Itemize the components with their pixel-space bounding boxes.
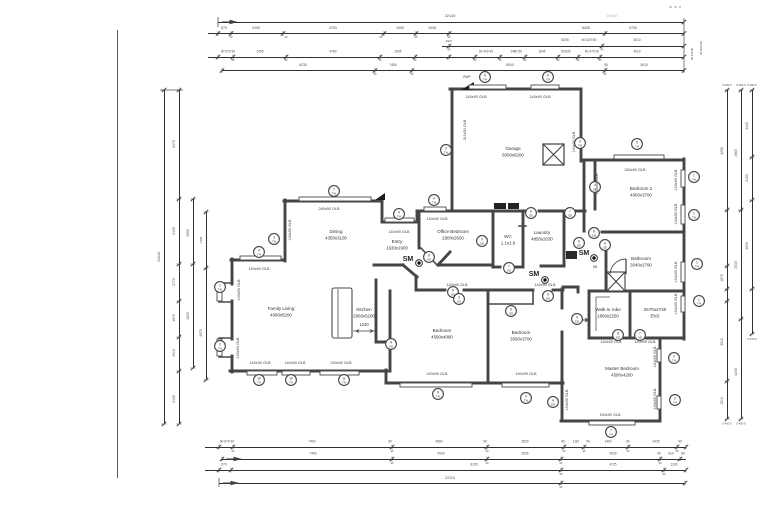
svg-text:4590x4260: 4590x4260	[611, 373, 633, 378]
wall dining top	[284, 200, 382, 203]
tick row5	[682, 68, 686, 73]
tick R3	[750, 198, 755, 202]
bay window 2 box	[219, 338, 232, 357]
svg-text:4010: 4010	[633, 50, 640, 54]
rwp triangle porch	[375, 193, 385, 200]
wall hall south of laundry	[563, 286, 578, 289]
tick row4	[576, 55, 580, 60]
room label Walk-in robe	[595, 307, 621, 319]
svg-text:5 490 5: 5 490 5	[736, 83, 746, 87]
tag circle hall door	[574, 238, 585, 249]
wall right outer (east)	[683, 159, 686, 339]
svg-text:TH: TH	[673, 400, 677, 404]
wall entry jamb	[415, 276, 418, 290]
svg-text:140x90 GLB: 140x90 GLB	[674, 293, 678, 315]
tick B3	[684, 468, 688, 473]
wall hall south seg3	[553, 289, 563, 292]
svg-text:Walk-in robe: Walk-in robe	[595, 307, 621, 312]
svg-text:7450: 7450	[389, 63, 397, 67]
svg-text:4530: 4530	[437, 452, 444, 456]
tag circle garage right	[575, 138, 586, 149]
svg-text:140x90 GLB: 140x90 GLB	[288, 219, 292, 241]
svg-text:140x90 GLB: 140x90 GLB	[388, 230, 410, 234]
tag circle bathroom hall door	[589, 228, 600, 239]
svg-text:TH: TH	[546, 77, 550, 81]
svg-text:4060: 4060	[734, 149, 738, 157]
tick B2	[559, 457, 563, 462]
wall office left	[418, 212, 421, 248]
svg-text:TH: TH	[289, 380, 293, 384]
page fold line	[117, 30, 119, 478]
window sill east wall 3	[681, 262, 685, 282]
wall laundry top seg2	[539, 210, 562, 213]
svg-text:6000x6200: 6000x6200	[502, 153, 524, 158]
dim line right R3	[752, 90, 754, 334]
svg-text:Entry: Entry	[392, 239, 403, 244]
svg-text:RWP: RWP	[463, 75, 470, 79]
svg-text:140x90 GLB: 140x90 GLB	[236, 337, 240, 359]
tick row4	[598, 55, 602, 60]
svg-text:1845: 1845	[538, 50, 545, 54]
svg-text:TH: TH	[257, 380, 261, 384]
dim end bar	[217, 17, 219, 27]
tick B2	[220, 457, 224, 462]
svg-text:TH: TH	[397, 214, 401, 218]
tick V3	[191, 262, 196, 266]
svg-text:Bathroom: Bathroom	[631, 256, 651, 261]
garage door cupboard 2	[508, 203, 519, 209]
room label Bedroom	[431, 328, 453, 340]
tag circle garage top window 2	[543, 72, 554, 83]
tick	[162, 88, 167, 92]
svg-text:90 670 90: 90 670 90	[220, 440, 234, 444]
walk-in robe shelving	[596, 297, 610, 331]
tick row2	[447, 31, 451, 36]
wall front (office/garage/laundry bottom edge)	[417, 210, 525, 213]
svg-text:2105: 2105	[172, 395, 176, 403]
SM dot hall	[542, 277, 549, 284]
tick B2	[485, 457, 489, 462]
svg-text:Bedroom: Bedroom	[512, 330, 531, 335]
garage door cupboard 1	[494, 203, 506, 209]
svg-text:2900x2600: 2900x2600	[442, 236, 464, 241]
svg-text:22110: 22110	[445, 476, 455, 480]
svg-text:140x90 GLB: 140x90 GLB	[284, 361, 306, 365]
wall wc bottom seg2	[516, 266, 523, 269]
tick V2	[177, 422, 182, 426]
tick V2	[177, 369, 182, 373]
svg-text:TH: TH	[635, 144, 639, 148]
svg-text:2190: 2190	[172, 227, 176, 235]
top right stray mark	[669, 6, 681, 8]
tick B4	[683, 481, 687, 486]
tag circle bedroom3 window	[521, 393, 532, 404]
svg-text:4010: 4010	[633, 38, 641, 42]
svg-text:3090: 3090	[186, 229, 190, 237]
svg-text:ENS: ENS	[650, 314, 659, 319]
svg-text:Garage: Garage	[505, 146, 521, 151]
svg-text:1.1x2.6: 1.1x2.6	[501, 241, 516, 246]
wall walk-in left	[588, 291, 591, 338]
svg-text:4530: 4530	[609, 452, 616, 456]
dim line bottom B2	[222, 459, 686, 461]
window sill bedroom2 top	[614, 155, 664, 159]
bay window 1 box	[219, 283, 232, 302]
room label Office Bedroom	[437, 229, 469, 241]
svg-text:5 490 5: 5 490 5	[722, 83, 732, 87]
tag circle ensuite door	[635, 330, 646, 341]
svg-text:2570x2720: 2570x2720	[644, 307, 667, 312]
wall garage top	[450, 88, 581, 91]
dim line left V2	[179, 90, 181, 424]
wall hall jamb	[577, 287, 580, 292]
tick row4	[523, 55, 527, 60]
tick row4	[473, 55, 477, 60]
tag circle laundry door b	[565, 208, 576, 219]
svg-text:3590x3700: 3590x3700	[510, 337, 532, 342]
tick	[162, 422, 167, 426]
room label 2570x2720	[644, 307, 667, 319]
svg-text:TH: TH	[342, 380, 346, 384]
svg-text:TH: TH	[218, 346, 222, 350]
entry splay right	[438, 252, 450, 265]
svg-text:TH: TH	[524, 398, 528, 402]
tag circle bedroom4 door b	[454, 294, 465, 305]
svg-text:90 420 90: 90 420 90	[479, 50, 493, 54]
svg-text:910: 910	[668, 452, 674, 456]
svg-text:5 490 5: 5 490 5	[747, 83, 757, 87]
svg-text:Family Living: Family Living	[268, 306, 295, 311]
window sill east wall 4	[681, 296, 685, 312]
svg-text:240x90 GLB: 240x90 GLB	[426, 372, 448, 376]
room label Garage	[502, 146, 524, 158]
tick B1	[390, 445, 394, 450]
wall hall south seg2	[464, 289, 533, 292]
tag circle bedroom3 door	[543, 291, 554, 302]
tick row4	[682, 55, 686, 60]
tag circle dining step a	[269, 234, 280, 245]
svg-text:1595: 1595	[394, 50, 401, 54]
dim right end bar	[683, 18, 685, 72]
dim arrow B4	[223, 481, 237, 484]
svg-text:TH: TH	[672, 358, 676, 362]
svg-text:5 490 5: 5 490 5	[736, 422, 746, 426]
tick R3	[750, 332, 755, 336]
closet side wall	[532, 290, 534, 304]
tag circle office window	[429, 195, 440, 206]
tag circle walk-in door	[613, 330, 624, 341]
wall porch front lower	[382, 221, 417, 224]
svg-text:570: 570	[221, 26, 227, 30]
tick R1	[725, 264, 730, 268]
tick B3	[662, 468, 666, 473]
tick V2	[177, 335, 182, 339]
room label Family Living	[268, 306, 295, 318]
tag circle porch window	[394, 209, 405, 220]
tick row5	[220, 68, 224, 73]
wall laundry top seg3	[575, 210, 585, 213]
window sill bay2	[217, 339, 222, 356]
wall garage right	[580, 89, 583, 161]
wall bedroom2 top	[581, 159, 684, 162]
bathroom door arc	[610, 259, 626, 274]
tag circle bay window 1	[215, 282, 226, 293]
svg-text:SM: SM	[579, 250, 590, 257]
tick B3	[217, 468, 221, 473]
svg-text:TH: TH	[695, 264, 699, 268]
tick row4	[231, 55, 235, 60]
wall porch step	[416, 211, 419, 222]
svg-text:1100: 1100	[671, 463, 678, 467]
wall dining left	[284, 200, 287, 261]
window sill porch	[385, 218, 414, 222]
svg-text:1545: 1545	[428, 26, 436, 30]
tag circle family window 1	[254, 375, 265, 386]
tag circle master right win 2	[670, 395, 681, 406]
dim line top overall 22110	[218, 22, 684, 24]
tick row3	[682, 44, 686, 49]
tick row2	[281, 31, 285, 36]
tag circle kitchen opening	[386, 339, 397, 350]
tick B1	[562, 445, 566, 450]
tag circle dining top	[329, 186, 340, 197]
wall kitchen return	[376, 341, 392, 344]
master door arrow	[578, 318, 588, 322]
dim line top row3	[442, 46, 684, 48]
svg-text:1480 50: 1480 50	[510, 50, 522, 54]
wall master top seg3	[646, 337, 660, 340]
svg-text:2510: 2510	[172, 349, 176, 357]
svg-text:6470: 6470	[172, 140, 176, 148]
svg-text:90: 90	[388, 440, 392, 444]
tick B2	[678, 457, 682, 462]
svg-text:3010: 3010	[720, 338, 724, 346]
tick V3	[191, 197, 196, 201]
svg-text:140x90 GLB: 140x90 GLB	[634, 340, 656, 344]
tick row2	[216, 31, 220, 36]
svg-text:1570: 1570	[720, 274, 724, 282]
wall walk-in/ensuite divider	[629, 291, 632, 338]
tick B2	[658, 457, 662, 462]
wall family west upper	[231, 259, 234, 284]
svg-text:Bedroom 2: Bedroom 2	[630, 186, 653, 191]
svg-text:3440: 3440	[745, 122, 749, 130]
svg-text:1240: 1240	[359, 322, 369, 327]
svg-text:140x90 GLB: 140x90 GLB	[426, 217, 448, 221]
tick row2	[382, 31, 386, 36]
svg-text:2527: 2527	[446, 39, 453, 43]
svg-text:140x90 GLB: 140x90 GLB	[600, 340, 622, 344]
svg-text:90: 90	[483, 440, 487, 444]
wall family west mid	[231, 301, 234, 339]
closet back wall	[489, 303, 533, 305]
window sill east wall 1	[681, 170, 685, 187]
svg-text:4520: 4520	[186, 312, 190, 320]
tag circle bathroom door	[600, 240, 611, 251]
svg-text:2405: 2405	[252, 26, 260, 30]
tick R2	[739, 317, 744, 321]
svg-text:TH: TH	[432, 200, 436, 204]
svg-text:5 490 5: 5 490 5	[722, 422, 732, 426]
tag circle wc door	[504, 263, 515, 274]
tag circle laundry door a	[526, 208, 537, 219]
dim line top row2	[208, 33, 684, 35]
svg-text:240x90 GLB: 240x90 GLB	[624, 168, 646, 172]
wall bathroom/walk-in top	[589, 290, 684, 293]
tag circle closet door	[506, 306, 517, 317]
wall bedroom2 left	[594, 162, 597, 209]
tick row4	[216, 55, 220, 60]
svg-text:90: 90	[657, 452, 661, 456]
svg-text:4000x3700: 4000x3700	[630, 193, 652, 198]
tick V2	[177, 299, 182, 303]
bathroom door leaf	[625, 259, 627, 274]
svg-text:TH: TH	[257, 252, 261, 256]
svg-text:2770: 2770	[172, 278, 176, 286]
svg-text:Office Bedroom: Office Bedroom	[437, 229, 469, 234]
tick B1	[231, 445, 235, 450]
room label Bathroom	[630, 256, 652, 268]
svg-text:50 620 50: 50 620 50	[582, 38, 597, 42]
svg-text:90 4010 90: 90 4010 90	[699, 41, 703, 55]
tick R3	[750, 88, 755, 92]
wall bedroom3 west	[389, 291, 392, 371]
svg-text:6405: 6405	[582, 26, 590, 30]
svg-text:TH: TH	[218, 287, 222, 291]
svg-text:4350x3100: 4350x3100	[325, 236, 347, 241]
tick row5	[410, 68, 414, 73]
tag circle bedroom2 door	[590, 182, 601, 193]
tick B4	[559, 481, 563, 486]
wall bedroom3 right lower	[561, 332, 564, 383]
tick B1	[626, 445, 630, 450]
dim line left V4	[206, 212, 208, 380]
window sill bedroom3 bottom 1	[400, 383, 472, 387]
wall bedroom3 bottom	[386, 382, 563, 385]
svg-text:4590: 4590	[435, 440, 442, 444]
svg-text:Bedroom: Bedroom	[433, 328, 452, 333]
svg-text:90: 90	[681, 452, 685, 456]
wall hall south seg1	[416, 289, 445, 292]
tick R3	[750, 287, 755, 291]
svg-text:140x90 GLB: 140x90 GLB	[572, 131, 576, 153]
wall laundry bottom	[541, 265, 564, 268]
SM dot bathroom hall	[591, 255, 598, 262]
tick	[682, 20, 686, 25]
svg-text:TH: TH	[436, 394, 440, 398]
svg-text:90: 90	[678, 440, 682, 444]
svg-text:90: 90	[561, 440, 565, 444]
tag circle family window 3	[339, 375, 350, 386]
tick B3	[229, 468, 233, 473]
wall master top seg2	[624, 337, 634, 340]
room label Master Bedroom	[605, 366, 639, 378]
window sill dining step	[240, 256, 281, 260]
svg-text:TH: TH	[692, 215, 696, 219]
wall ensuite/master step	[660, 337, 684, 340]
wall family west lower	[231, 356, 234, 372]
svg-text:2030: 2030	[734, 261, 738, 269]
svg-text:TH: TH	[578, 143, 582, 147]
svg-text:4725: 4725	[609, 463, 616, 467]
svg-text:240x90 GLB: 240x90 GLB	[318, 207, 340, 211]
garage crossed box (pier)	[543, 144, 564, 165]
svg-text:3505: 3505	[521, 452, 528, 456]
tick V2	[177, 262, 182, 266]
tick R1	[725, 299, 730, 303]
dim line bottom B1	[205, 447, 686, 449]
svg-text:140x90 GLB: 140x90 GLB	[465, 95, 487, 99]
svg-text:240x90 GLB: 240x90 GLB	[330, 361, 352, 365]
wall dining step	[231, 259, 285, 262]
room label Kitchen	[353, 307, 375, 319]
tick B3	[559, 468, 563, 473]
wall bedroom2/bathroom divider	[602, 231, 684, 234]
wall hall vertical (garage right ext)	[583, 160, 586, 231]
svg-text:140x90 GLB: 140x90 GLB	[248, 267, 270, 271]
svg-text:140x90 GLB: 140x90 GLB	[653, 388, 657, 410]
svg-text:TH: TH	[697, 301, 701, 305]
tick R3	[750, 155, 755, 159]
svg-text:Dining: Dining	[329, 229, 342, 234]
wall step family/bedroom	[385, 370, 388, 383]
dim line right R1	[727, 90, 729, 419]
window sill master right 2	[657, 396, 661, 409]
window sill family bottom 1	[247, 371, 277, 375]
tick R1	[725, 379, 730, 383]
svg-text:22110: 22110	[445, 13, 457, 18]
window sill garage top 2	[531, 85, 559, 89]
tag circle family window 2	[286, 375, 297, 386]
svg-text:Master Bedroom: Master Bedroom	[605, 366, 639, 371]
tick R2	[739, 88, 744, 92]
tick B1	[485, 445, 489, 450]
window sill east wall 2	[681, 205, 685, 224]
tick R1	[725, 208, 730, 212]
room label WC	[501, 234, 516, 246]
svg-text:2425: 2425	[652, 440, 659, 444]
window sill master right 1	[657, 349, 661, 362]
tick row2	[229, 31, 233, 36]
tag circle bay window 2	[215, 341, 226, 352]
wall family-living bottom	[230, 370, 387, 373]
svg-text:TH: TH	[332, 191, 336, 195]
svg-text:4090x5200: 4090x5200	[270, 313, 292, 318]
kitchen arrow	[353, 330, 376, 333]
tag circle garage top window 1	[480, 72, 491, 83]
window sill office	[424, 207, 446, 211]
tick V2	[177, 88, 182, 92]
tick row2	[603, 31, 607, 36]
svg-text:3010: 3010	[640, 63, 648, 67]
wc niche	[519, 225, 526, 227]
window sill garage top 1	[469, 85, 506, 89]
dim line right R2	[741, 90, 743, 419]
tag circle bedroom4 window	[433, 389, 444, 400]
svg-text:570: 570	[221, 463, 227, 467]
tag circle entry	[424, 252, 435, 263]
wall wc/laundry divider	[522, 212, 525, 267]
svg-text:4700: 4700	[629, 26, 637, 30]
svg-text:140x50 GLB: 140x50 GLB	[595, 173, 599, 195]
svg-text:14140: 14140	[157, 252, 161, 262]
svg-text:90 470 90: 90 470 90	[585, 50, 599, 54]
svg-text:3530: 3530	[521, 440, 528, 444]
room label Laundry	[531, 230, 553, 242]
svg-text:TH: TH	[692, 177, 696, 181]
wall bedroom divider	[487, 291, 490, 383]
svg-text:90 570 90: 90 570 90	[221, 50, 235, 54]
